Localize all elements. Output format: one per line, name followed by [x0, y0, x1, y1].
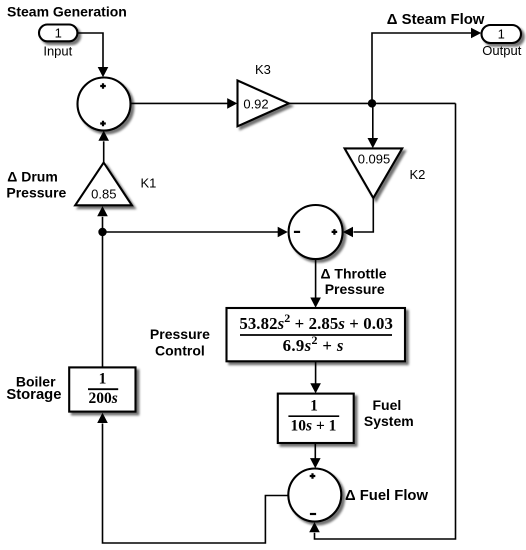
svg-text:System: System [364, 413, 414, 429]
node: junction below K1 [98, 228, 106, 236]
svg-text:Δ Fuel Flow: Δ Fuel Flow [345, 488, 428, 504]
svg-text:K2: K2 [410, 167, 426, 182]
svg-text:Pressure: Pressure [325, 281, 385, 297]
wire: sum S1 to gain K3 [131, 102, 228, 104]
wire: junction right to sum S2 minus input [103, 231, 279, 233]
sum junction S2 [289, 205, 343, 259]
wire: K2 output to sum S2 right input [354, 198, 374, 232]
wire: fuel system block to sum S3 top [314, 443, 316, 459]
gain K3 [238, 81, 289, 127]
svg-text:Δ Drum: Δ Drum [7, 168, 58, 184]
svg-text:Output: Output [482, 43, 521, 58]
svg-text:0.85: 0.85 [91, 186, 116, 201]
fuel system block [278, 394, 354, 443]
sum junction S1 [78, 78, 131, 131]
wire: junction down to gain K2 [372, 103, 374, 138]
svg-text:Steam Generation: Steam Generation [7, 4, 127, 20]
svg-text:10s + 1: 10s + 1 [291, 417, 337, 434]
svg-text:0.095: 0.095 [358, 152, 391, 167]
svg-text:0.92: 0.92 [243, 97, 268, 112]
svg-text:Storage: Storage [6, 387, 61, 403]
wire: pressure control block to fuel system block [315, 361, 317, 383]
wire: boiler storage output up to junction [102, 232, 104, 368]
svg-text:Pressure: Pressure [150, 326, 210, 342]
boiler storage block [69, 367, 135, 411]
svg-text:Δ Throttle: Δ Throttle [320, 266, 386, 282]
pressure control transfer function block [227, 308, 406, 361]
wire: sum S3 output loop to boiler storage input [103, 424, 289, 544]
svg-text:1: 1 [310, 398, 318, 415]
svg-text:53.82s2 + 2.85s + 0.03: 53.82s2 + 2.85s + 0.03 [239, 311, 393, 333]
svg-text:Input: Input [43, 44, 72, 59]
sum junction S3 [288, 469, 341, 522]
gain K2 [345, 148, 403, 198]
svg-text:1: 1 [99, 371, 107, 388]
output port 1 [482, 25, 522, 43]
svg-text:K3: K3 [255, 62, 271, 77]
svg-text:1: 1 [498, 26, 505, 41]
svg-text:K1: K1 [141, 176, 157, 191]
wire: junction up to output port [372, 33, 472, 103]
svg-text:1: 1 [55, 25, 62, 40]
input port 1 [39, 25, 77, 42]
wire: K1 output up to sum S1 bottom [103, 141, 105, 162]
wire: sum S2 down to pressure control block [315, 259, 317, 298]
svg-text:Fuel: Fuel [373, 397, 402, 413]
wire: right-side feedback down to sum S3 bottom [315, 103, 456, 539]
gain K1 [75, 163, 132, 206]
node: junction on K3 output [368, 99, 376, 107]
svg-text:200s: 200s [89, 390, 118, 407]
wire: K3 output across to right side [289, 102, 456, 104]
svg-text:Δ Steam Flow: Δ Steam Flow [387, 12, 485, 28]
svg-text:Pressure: Pressure [6, 184, 66, 200]
wire: junction up into gain K1 [102, 217, 104, 232]
wire: input port to sum S1 top [78, 33, 104, 68]
svg-text:Control: Control [155, 342, 205, 358]
